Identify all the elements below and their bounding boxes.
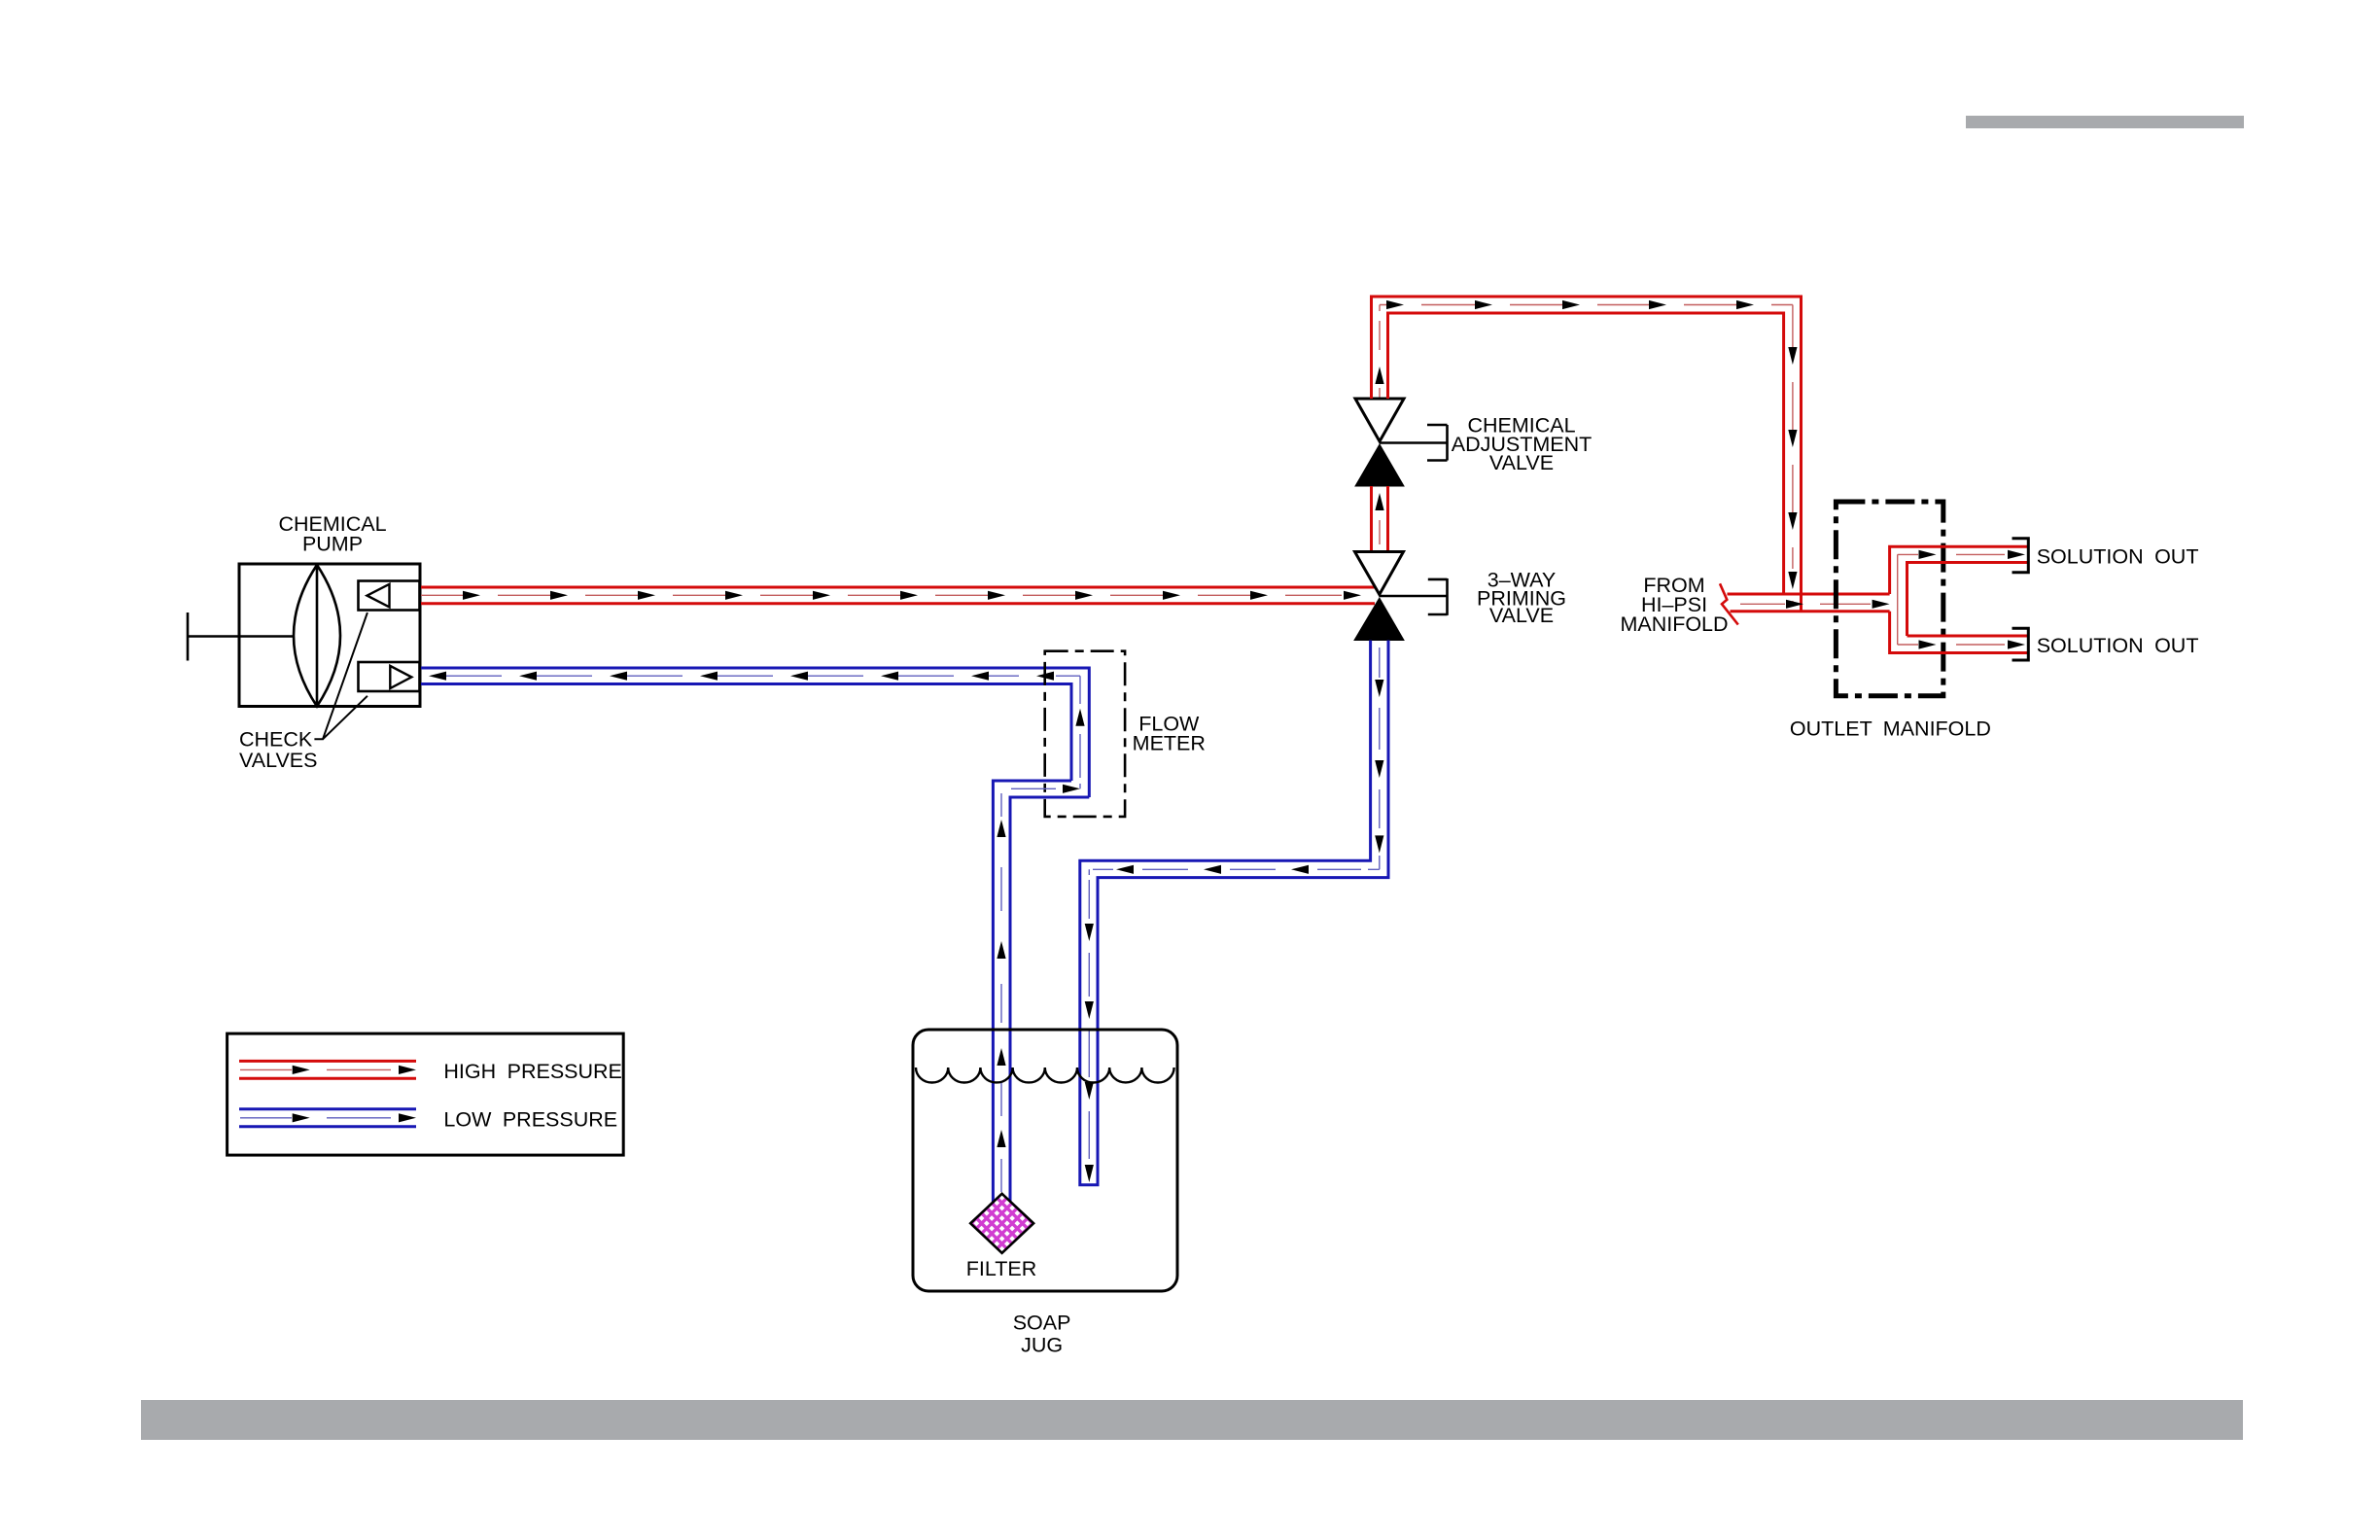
filter (crosshatched diamond) [949, 1108, 1056, 1338]
svg-text:PUMP: PUMP [302, 533, 363, 556]
flow arrows on horizontal run to jug inlet [1116, 865, 1309, 874]
red pipe above chemical adjustment valve [1379, 305, 1381, 399]
valve V1 chemical adjustment [1355, 399, 1448, 486]
check valve CV2 (lower, inlet) [359, 662, 420, 691]
right arrow in jog [1063, 785, 1080, 793]
svg-text:SOAP: SOAP [1013, 1311, 1071, 1334]
svg-text:VALVE: VALVE [1489, 451, 1554, 474]
red pipe between valves [1372, 486, 1388, 552]
svg-text:LOW PRESSURE: LOW PRESSURE [443, 1108, 617, 1132]
chemical pump body [188, 564, 420, 707]
valve V2 handle [1380, 578, 1448, 615]
loop arrows down [1788, 347, 1797, 365]
svg-text:SOLUTION OUT: SOLUTION OUT [2037, 545, 2199, 569]
svg-text:SOLUTION OUT: SOLUTION OUT [2037, 634, 2199, 657]
pipe break symbol [1720, 583, 1738, 624]
svg-text:VALVES: VALVES [239, 749, 317, 772]
blue main flow arrows (leftward) [429, 672, 1054, 681]
svg-text:OUTLET MANIFOLD: OUTLET MANIFOLD [1790, 717, 1991, 741]
meter jog [993, 781, 1089, 1204]
check valve CV1 (upper, outlet) [359, 581, 420, 611]
bottom gray bar [141, 1400, 2243, 1440]
pump diaphragm lens [294, 565, 340, 707]
water surface wavy line [916, 1067, 1174, 1083]
up arrow in meter [1075, 709, 1084, 726]
svg-text:METER: METER [1133, 731, 1206, 754]
valve V1 handle [1380, 425, 1448, 461]
riser from filter pilot line [1000, 793, 1002, 1192]
meter vertical pipe pilot line [1079, 676, 1081, 788]
svg-text:FILTER: FILTER [966, 1257, 1036, 1280]
pump T handle [188, 612, 295, 661]
leader lines for check valves [314, 612, 367, 739]
legend high pressure sample [239, 1061, 416, 1078]
loop arrows right [1386, 300, 1798, 589]
svg-text:HIGH PRESSURE: HIGH PRESSURE [443, 1060, 622, 1083]
svg-text:MANIFOLD: MANIFOLD [1620, 612, 1728, 636]
outlet manifold dash-dot box [1836, 502, 1942, 696]
top right gray bar [1966, 116, 2244, 128]
svg-text:JUG: JUG [1021, 1334, 1063, 1357]
red main flow arrows [463, 591, 1361, 600]
svg-text:CHECK: CHECK [239, 728, 313, 752]
hi-psi supply pipe [1728, 594, 1890, 612]
svg-text:VALVE: VALVE [1489, 604, 1554, 627]
bracket upper solution out [2012, 539, 2029, 573]
legend low pressure sample [239, 1109, 416, 1127]
up arrow [1375, 367, 1383, 384]
up arrow [1375, 493, 1383, 510]
legend box [227, 1033, 624, 1155]
flow meter dashed box [1045, 651, 1125, 817]
bracket lower solution out [2012, 628, 2029, 660]
soap jug container [913, 1030, 1177, 1291]
flow arrows on jug inlet down pipe [1085, 924, 1094, 1182]
manifold split pipes [1890, 546, 2029, 652]
